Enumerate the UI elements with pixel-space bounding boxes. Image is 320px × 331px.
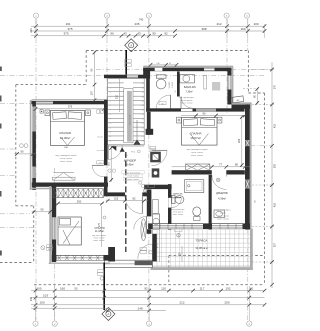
svg-text:таван: латекс: таван: латекс [180,103,193,105]
dimension AC 60 [243,87,259,105]
svg-text:7: 7 [110,110,111,112]
svg-text:11,95м²: 11,95м² [95,229,104,233]
svg-text:192: 192 [225,286,230,290]
top dimension chains [29,18,266,38]
svg-text:375: 375 [68,105,73,109]
svg-text:92: 92 [144,286,148,290]
bedroomR label [186,132,208,157]
svg-text:А: А [130,43,132,47]
wall: corridor east upper (bedroomR side) [146,112,154,135]
svg-text:175: 175 [98,222,101,227]
door at stair bottom [108,145,122,159]
interior dimension: corridor 118/82 [106,197,148,203]
svg-text:22: 22 [142,114,144,116]
wall: wc/bath north [143,66,233,71]
svg-text:163: 163 [238,138,241,143]
bath1 label [179,85,197,105]
svg-text:14,30м²: 14,30м² [60,136,71,140]
grid bubbles top [33,13,249,18]
entrance step to terrace [105,260,153,267]
svg-text:80: 80 [235,163,238,167]
svg-text:19: 19 [142,101,144,103]
svg-text:82: 82 [133,197,136,201]
svg-text:175: 175 [156,243,159,248]
svg-text:26: 26 [142,132,144,134]
svg-text:103: 103 [43,293,48,297]
wall piers at terrace door [108,234,157,262]
svg-text:206: 206 [48,249,51,251]
vent shaft 2 [152,168,160,177]
svg-text:СПАЛНЯ: СПАЛНЯ [59,131,71,135]
toilet wc1 [156,75,166,89]
svg-text:стени: латекс: стени: латекс [191,152,203,154]
wall: bath east [227,66,232,104]
svg-text:стени: фаянс: стени: фаянс [173,211,184,214]
svg-text:16: 16 [142,88,144,90]
dressing label [216,192,231,221]
wall: bath2-dressing divider [209,175,212,230]
wardrobe bedroomR [186,164,210,170]
svg-text:148: 148 [137,306,142,310]
svg-text:235: 235 [134,22,139,26]
door bedroom1 [92,165,104,177]
svg-text:10: 10 [109,123,111,125]
interior dimension: bedroomR south 77/80 [172,163,250,169]
interior dimension: bedroom1 width [34,105,106,111]
svg-text:375: 375 [67,27,72,31]
svg-text:12: 12 [109,132,111,134]
wall: bedroomR east [245,103,251,230]
svg-text:16,57м²: 16,57м² [190,136,201,140]
exterior wall: west [31,100,36,190]
window tag circles left [20,144,28,148]
svg-text:110: 110 [116,94,119,99]
svg-text:таван: латекс: таван: латекс [191,155,204,157]
svg-text:20: 20 [142,105,144,107]
shelf column closet [153,200,159,214]
svg-text:90: 90 [99,162,101,164]
svg-text:43: 43 [123,32,127,36]
svg-text:118: 118 [114,197,119,201]
svg-text:243: 243 [29,28,33,33]
wall: closet north [144,185,172,189]
boiler closet [153,214,160,229]
interior dimension: bedroom3 175 [98,206,102,247]
staircase [108,79,145,147]
svg-text:А: А [108,312,110,316]
svg-text:375: 375 [63,32,68,36]
door tag bedroom1 [97,161,116,173]
svg-text:таван: латекс: таван: латекс [127,179,139,181]
svg-text:ТЕРАСА: ТЕРАСА [196,239,208,243]
svg-text:415: 415 [274,202,277,207]
AC outdoor unit [232,96,244,103]
door closet [134,216,147,229]
svg-text:14,38 кв.м: 14,38 кв.м [195,246,207,250]
svg-text:БАНЯ-WC: БАНЯ-WC [184,85,196,89]
svg-text:под: гранитогрес: под: гранитогрес [126,172,141,174]
svg-text:под: гранитогрес: под: гранитогрес [179,97,195,99]
svg-text:17: 17 [142,92,144,94]
svg-text:14: 14 [109,141,111,143]
section line A-A top [125,39,138,75]
svg-text:8: 8 [110,114,111,116]
door bath2 [168,198,181,208]
interior dimension terrace x182 [179,246,182,262]
svg-text:7,35м²: 7,35м² [185,91,192,94]
interior dimension: bedroom1 window 90 [14,150,36,156]
svg-text:ДРЕШНИК: ДРЕШНИК [216,192,228,195]
svg-text:стени: латекс: стени: латекс [217,216,229,218]
interior dimension: stair 110 [116,79,120,112]
svg-text:УН.С: УН.С [131,151,136,153]
bath2 toilet [172,196,184,204]
wardrobe row bedroom3 [53,189,103,198]
svg-text:под: ламиниран паркет: под: ламиниран паркет [186,149,208,151]
svg-text:18: 18 [142,96,144,98]
svg-text:БАНЯ-WC: БАНЯ-WC [173,193,183,196]
bedroom3 label [92,227,106,242]
dressing stool [214,210,225,218]
exterior wall: bedroom1 north [32,100,108,105]
svg-text:357: 357 [274,242,277,247]
svg-text:стени: латекс: стени: латекс [60,158,72,160]
svg-text:11: 11 [109,127,111,129]
wall: right block south (terrace) [148,223,250,229]
wall: bedroom1 south [30,183,108,189]
tag under section bottom [98,270,104,280]
svg-text:24: 24 [142,123,144,125]
door bedroomR [152,150,168,166]
svg-text:8,45м²: 8,45м² [126,164,133,167]
small circle tag near wall [103,216,106,219]
door tags bedroomR [150,146,156,152]
terrace door from corridor [138,244,153,259]
margin blobs left edge [0,67,2,256]
wall: stair/wc connector [143,68,150,79]
svg-text:110: 110 [161,286,166,290]
svg-text:90: 90 [21,150,24,154]
svg-text:40: 40 [250,286,254,290]
svg-text:27: 27 [142,136,144,138]
exterior wall: west lower (bedroom3) [50,185,56,264]
switch tag bedroomR door [216,178,220,182]
roof overhang dashed outline [0,51,265,285]
svg-text:2: 2 [110,88,111,90]
drain terrace [175,229,183,238]
interior dimension: bedroomR top 90 [181,111,247,117]
terrace tiled floor [151,229,253,271]
wall: bath2 west [168,184,171,229]
svg-text:187: 187 [91,90,94,95]
wall: wc west [146,79,150,112]
svg-text:392: 392 [274,163,277,168]
bath2 sink [193,207,201,221]
svg-text:160: 160 [60,286,65,290]
svg-text:28: 28 [142,141,144,143]
svg-text:23: 23 [142,118,144,120]
vent shaft 1 [150,152,161,163]
svg-text:таван: латекс: таван: латекс [93,240,104,242]
door tag terrace [140,248,152,255]
section line A-A bottom [102,263,115,321]
svg-text:90: 90 [203,111,206,115]
wall: step-out north (bedroomR) [232,103,252,109]
corridor label [122,159,145,182]
stair foot marks [111,146,140,157]
bedroom1 label [55,131,77,163]
svg-text:9: 9 [110,118,111,120]
wc top small dims [149,63,179,67]
svg-text:398: 398 [201,27,206,31]
svg-text:4,36м²: 4,36м² [218,197,226,201]
interior dimension: terrace 175 [156,230,160,263]
wall: bath south / bedroomR north [146,97,244,112]
door wc [156,95,171,110]
wall: stair north [104,75,147,79]
bed bedroom1 [51,111,85,146]
nightstands bedroomR [177,117,222,123]
wall: bedroom3 south with french window [49,255,110,263]
labels near section top [125,60,132,67]
door bedroom3 [125,194,142,213]
wall: bedroomR south [172,170,245,174]
svg-text:5,84м²: 5,84м² [175,196,181,199]
svg-text:92: 92 [164,32,168,36]
svg-text:1: 1 [110,83,111,85]
svg-text:90: 90 [110,32,114,36]
svg-text:100: 100 [253,22,258,26]
svg-text:77: 77 [49,246,51,248]
svg-text:АС: АС [237,99,240,102]
svg-text:370: 370 [274,84,277,89]
interior dimension: left lower 90 [32,208,52,214]
door bedroomR-dressing [212,175,227,190]
interior dimension: bedroom3 250 [56,199,104,205]
svg-text:h=2,20: h=2,20 [97,137,103,139]
grid bubbles bottom [33,321,252,326]
nightstands bedroom1 [40,110,90,116]
hatched shaft in bath east wall [228,76,232,90]
interior dimension: top-left 80/187 [91,51,97,102]
svg-text:200: 200 [224,301,229,305]
svg-text:740: 740 [139,18,144,22]
wc2 tag circles [144,185,154,188]
svg-text:6: 6 [110,105,111,107]
svg-text:таван: латекс: таван: латекс [173,214,184,216]
svg-text:77: 77 [219,163,222,167]
right dimension column [248,62,277,288]
svg-text:5: 5 [110,101,111,103]
bedroom1 south window symbol [53,173,76,181]
svg-text:1,35м²: 1,35м² [171,82,174,88]
switch symbol corridor [143,189,146,192]
terrace label [195,239,207,251]
corridor width dim 110 [109,146,114,182]
svg-text:117: 117 [200,286,205,290]
svg-text:4: 4 [110,96,111,98]
svg-text:ел.табло: ел.табло [97,150,104,152]
svg-text:таван: латекс: таван: латекс [217,219,230,221]
tag bottom left [41,245,53,251]
svg-text:стени: фаянс: стени: фаянс [180,99,192,102]
wall: bedroom1 east / corridor west [104,100,108,197]
bath2 tub [185,180,204,193]
svg-text:25: 25 [254,200,256,203]
svg-text:191: 191 [65,22,70,26]
wall: corridor-bedroom3 [106,192,148,196]
svg-text:стени: латекс: стени: латекс [127,176,139,178]
svg-text:под: ламиниран: под: ламиниран [216,210,231,212]
tag circles shaft [139,181,145,187]
svg-text:212: 212 [179,301,184,305]
svg-text:250: 250 [77,199,82,203]
svg-text:3: 3 [110,92,111,94]
svg-text:13: 13 [109,136,111,138]
section line through corridor [125,152,127,252]
switch marks bedroom1 E wall [97,110,104,152]
svg-text:УН.WC: УН.WC [169,81,171,88]
bath2 label [171,193,184,217]
svg-text:100: 100 [36,286,41,290]
bottom dimension chains [30,286,266,322]
svg-text:25: 25 [142,127,144,129]
radiator corridor [141,219,146,241]
svg-text:245: 245 [30,296,33,301]
svg-text:90: 90 [41,208,44,212]
bed bedroomR [182,118,218,146]
wall: wc east [177,72,180,97]
svg-text:КОРИДОР: КОРИДОР [124,159,137,163]
svg-text:25: 25 [175,90,177,92]
svg-text:43: 43 [137,32,141,36]
svg-text:100: 100 [39,301,44,305]
svg-text:60: 60 [161,103,163,105]
svg-text:15: 15 [142,83,144,85]
svg-text:СПАЛНЯ: СПАЛНЯ [190,132,202,136]
svg-text:160: 160 [240,27,245,31]
shower bath1 [204,76,220,91]
svg-text:412: 412 [216,22,221,26]
door tag wc [159,102,166,106]
interior dimension: bedroomR east height [238,115,243,167]
svg-text:18х17,5/28: 18х17,5/28 [130,114,132,125]
wc label [169,81,174,88]
svg-text:паркет: паркет [220,213,226,215]
svg-text:под: ламиниран паркет: под: ламиниран паркет [55,155,77,157]
svg-text:90: 90 [152,32,156,36]
wall: corridor east lower [147,190,152,234]
bed bedroom3 [58,217,81,245]
svg-text:таван: латекс: таван: латекс [60,161,73,163]
grid axis lines [0,19,272,320]
svg-text:415: 415 [274,123,277,128]
washing machine bath1 [180,75,195,83]
svg-text:21: 21 [142,110,144,112]
